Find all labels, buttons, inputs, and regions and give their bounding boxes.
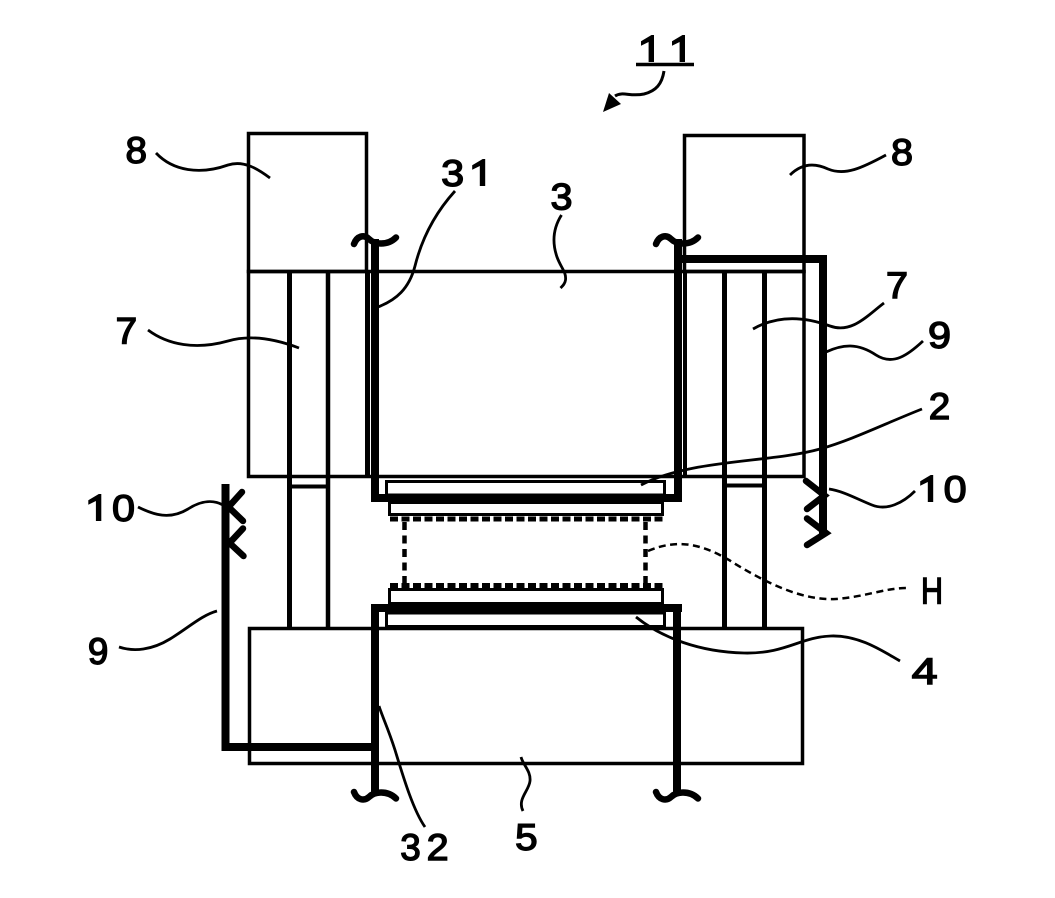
svg-text:3: 3 <box>551 177 573 218</box>
leader for 7 right <box>753 303 884 329</box>
column 7 right outer-left edge <box>683 272 687 477</box>
column 7 right inner line b <box>762 272 767 627</box>
leader for 10 left <box>138 502 223 516</box>
support block 8 right <box>685 136 805 272</box>
leader for 5 <box>521 757 530 811</box>
leader for 9 left <box>119 611 217 650</box>
svg-text:3: 3 <box>400 827 421 868</box>
svg-text:2: 2 <box>929 386 951 427</box>
leader for 10 right <box>829 489 915 507</box>
break symbol 10 right chevron a <box>806 481 825 509</box>
heating space H dashed bottom edge <box>390 583 665 588</box>
leader for 31 <box>378 191 455 307</box>
electrode 31 right <box>674 239 682 501</box>
plate 2 thick heater bar <box>371 494 682 502</box>
terminal hook 31 right <box>656 236 698 244</box>
lower heater plate 4 top slab <box>390 590 663 604</box>
lower heater plate 4 bottom slab <box>387 613 665 627</box>
leader for 3 <box>554 215 566 288</box>
break symbol 10 right chevron b <box>807 519 826 546</box>
electrode 32 left <box>371 607 379 796</box>
heating space H dashed right edge <box>643 522 648 583</box>
svg-text:2: 2 <box>427 827 449 868</box>
svg-text:9: 9 <box>928 315 951 356</box>
electrode 31 left <box>371 239 379 501</box>
rod shoulder left <box>287 485 330 489</box>
break symbol 10 left chevron a <box>229 492 244 521</box>
electrode 32 right <box>673 607 681 796</box>
upper heater plate 2 lower slab <box>390 503 663 515</box>
leader for 9 right <box>826 341 923 359</box>
leader for 8 right <box>790 155 886 175</box>
column 7 left inner line a <box>287 272 292 627</box>
upper holder 3 outline <box>249 272 805 477</box>
support block 8 left <box>249 134 367 272</box>
svg-text:8: 8 <box>126 130 148 171</box>
leader for 8 left <box>156 153 270 178</box>
label 11 <box>641 35 654 62</box>
column 7 right inner line a <box>722 272 727 627</box>
leader for 7 left <box>148 330 299 348</box>
svg-text:4: 4 <box>912 651 938 692</box>
break symbol 10 left chevron b <box>230 529 244 557</box>
wire 9 right <box>678 259 823 534</box>
upper heater plate 2 top slab <box>387 482 665 496</box>
heating space H dashed top edge <box>390 517 665 522</box>
column 7 left outer-right edge <box>365 272 370 477</box>
svg-text:8: 8 <box>891 132 913 173</box>
heating space H dashed left edge <box>402 522 407 583</box>
column 7 left inner line b <box>326 272 331 627</box>
svg-text:0: 0 <box>944 469 967 510</box>
base block 5 <box>250 629 803 764</box>
arrow from label 11 to assembly <box>615 71 664 96</box>
leader for 32 <box>379 706 425 827</box>
wire 9 left <box>226 484 380 747</box>
svg-text:9: 9 <box>88 631 109 672</box>
svg-text:5: 5 <box>515 817 538 858</box>
svg-text:7: 7 <box>116 311 137 352</box>
terminal hook 32 left <box>354 792 396 800</box>
rod shoulder right <box>723 484 767 488</box>
svg-text:3: 3 <box>441 153 464 194</box>
underline of label 11 <box>636 63 694 67</box>
plate 4 thick heater bar <box>371 604 682 612</box>
svg-text:0: 0 <box>112 488 135 529</box>
label 10 left <box>88 494 101 521</box>
leader for 4 <box>636 617 900 661</box>
label 10 right <box>920 475 933 502</box>
svg-text:H: H <box>921 571 943 612</box>
terminal hook 31 left <box>354 236 396 244</box>
svg-text:7: 7 <box>886 265 908 306</box>
terminal hook 32 right <box>656 792 698 800</box>
dashed leader for H <box>648 544 906 599</box>
leader for 2 <box>641 409 922 485</box>
